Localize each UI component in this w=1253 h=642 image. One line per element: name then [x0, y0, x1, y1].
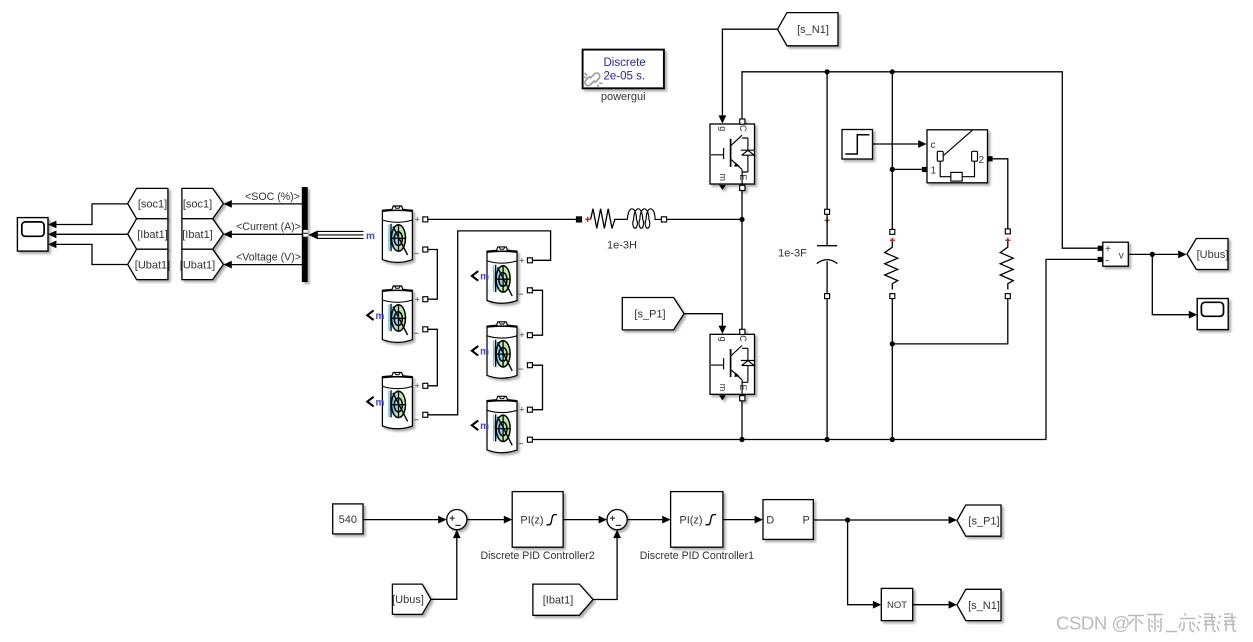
- sum block Add2: [607, 509, 627, 529]
- svg-text:+: +: [519, 330, 525, 341]
- watermark CSDN: [1056, 613, 1130, 634]
- wire [s_P1] to IGBT2 gate: [684, 314, 722, 326]
- svg-text:Discrete PID Controller2: Discrete PID Controller2: [480, 550, 594, 562]
- junction resistor bottoms: [890, 341, 895, 346]
- svg-text:1: 1: [931, 166, 937, 177]
- svg-text:m: m: [376, 397, 385, 408]
- wire Battery3 minus to Battery4 plus: [428, 231, 551, 415]
- junction top rail capacitor branch: [825, 69, 830, 74]
- resistor R2 branch: [1005, 229, 1010, 234]
- wire from [Ibat1] to Scope1 input 2: [56, 233, 128, 235]
- breaker block: [927, 130, 988, 183]
- svg-text:v: v: [1119, 250, 1124, 261]
- svg-text:Discrete PID Controller1: Discrete PID Controller1: [640, 550, 754, 562]
- svg-text:[soc1]: [soc1]: [138, 199, 167, 211]
- wire [Ibat1] to sum2: [593, 538, 617, 600]
- svg-text:NOT: NOT: [887, 600, 907, 611]
- goto tag [Ubat1]: [182, 249, 224, 279]
- IGBT U2: [710, 329, 755, 401]
- wire from [Ubat1] to Scope1 input 3: [56, 244, 128, 264]
- battery Battery6: [487, 396, 517, 452]
- svg-text:m: m: [376, 311, 385, 322]
- PID block Discrete PID Controller2: [512, 492, 563, 548]
- sum block Add1: [447, 509, 467, 529]
- IGBT U1: [710, 119, 755, 191]
- junction voltmeter output: [1150, 252, 1155, 257]
- wire IGBT1 emitter to IGBT2 collector: [741, 191, 743, 330]
- svg-text:[Ubus]: [Ubus]: [392, 594, 424, 606]
- svg-text:+: +: [519, 405, 525, 416]
- wire sum2 to PID1: [627, 519, 662, 521]
- wire resistor branch to breaker port 1: [892, 168, 922, 170]
- goto tag [soc1]: [182, 188, 224, 218]
- svg-text:[Ubus]: [Ubus]: [1197, 249, 1229, 261]
- goto tag [s_P1]: [957, 505, 1001, 536]
- capacitor C1 1e-3F branch: [826, 72, 828, 210]
- svg-text:[s_N1]: [s_N1]: [968, 600, 1000, 612]
- svg-text:[s_P1]: [s_P1]: [968, 515, 999, 527]
- subsystem block D P: [763, 500, 813, 540]
- svg-text:<Voltage (V)>: <Voltage (V)>: [236, 252, 301, 264]
- goto tag [Ibat1]: [182, 219, 224, 250]
- svg-text:powergui: powergui: [601, 91, 646, 103]
- wire breaker port 2 to resistor R2: [993, 159, 1008, 229]
- svg-text:[Ubat1]: [Ubat1]: [180, 259, 215, 271]
- wire 540 to sum1: [363, 519, 439, 521]
- powergui block: [583, 50, 664, 89]
- svg-text:Discrete: Discrete: [604, 57, 646, 69]
- PID block Discrete PID Controller1: [671, 492, 723, 548]
- svg-text:1e-3H: 1e-3H: [607, 239, 637, 251]
- battery Battery2: [382, 286, 412, 342]
- wire Battery2 minus to Battery3 plus: [428, 329, 438, 386]
- svg-text:+: +: [415, 381, 421, 392]
- svg-text:+: +: [1105, 244, 1111, 255]
- wire voltmeter output to goto [Ubus]: [1128, 253, 1179, 255]
- from tag [s_P1]: [622, 298, 684, 330]
- wire PID2 to sum2: [563, 519, 599, 521]
- wire bus selector to [soc1] with label SOC: [232, 203, 303, 205]
- svg-text:m: m: [480, 347, 489, 358]
- NOT block: [881, 588, 912, 620]
- wire Battery5 minus to Battery6 plus: [532, 365, 542, 410]
- wire from [soc1] to Scope1 input 1: [56, 204, 128, 225]
- junction on bottom bus below capacitor: [825, 437, 830, 442]
- wire Battery1 plus to series RL branch: [428, 218, 577, 220]
- svg-text:CSDN @: CSDN @: [1056, 613, 1130, 634]
- scope Scope1: [17, 218, 48, 252]
- svg-text:m: m: [480, 272, 489, 283]
- series RLC branch resistor and inductor 1e-3H: [576, 217, 581, 222]
- from tag [Ubus]: [392, 584, 431, 614]
- junction on bottom bus below resistor R1: [890, 437, 895, 442]
- wire sum1 to PID2: [467, 519, 504, 521]
- wire [Ubus] to sum1: [431, 538, 457, 599]
- scope Scope2: [1197, 299, 1228, 330]
- svg-text:+: +: [415, 294, 421, 305]
- svg-text:540: 540: [339, 514, 357, 526]
- from tag [soc1]: [128, 188, 168, 218]
- svg-text:1e-3F: 1e-3F: [778, 247, 807, 259]
- resistor R1 branch: [891, 72, 893, 230]
- svg-text:[soc1]: [soc1]: [183, 199, 212, 211]
- from tag [Ubat1]: [128, 249, 168, 279]
- svg-text:-: -: [1106, 255, 1110, 267]
- svg-text:<Current (A)>: <Current (A)>: [236, 221, 301, 233]
- wire IGBT1 collector to top rail and voltmeter plus: [742, 72, 1097, 248]
- wire step to breaker c: [873, 143, 919, 145]
- wire junction to NOT block: [848, 520, 873, 605]
- svg-text:c: c: [931, 140, 936, 151]
- wire Battery1 minus to Battery2 plus: [428, 250, 438, 300]
- step block: [842, 130, 873, 160]
- svg-text:2: 2: [979, 155, 985, 166]
- svg-text:[Ibat1]: [Ibat1]: [137, 229, 168, 241]
- battery Battery3: [382, 372, 412, 428]
- svg-text:P: P: [802, 514, 809, 526]
- from tag [s_N1]: [778, 13, 839, 46]
- svg-text:PI(z): PI(z): [679, 514, 702, 526]
- svg-text:m: m: [480, 421, 489, 432]
- junction on bottom bus below IGBT2: [739, 437, 744, 442]
- junction top rail resistor branch: [890, 69, 895, 74]
- junction midpoint rail: [739, 217, 744, 222]
- svg-text:+: +: [519, 255, 525, 266]
- svg-text:2e-05 s.: 2e-05 s.: [604, 71, 646, 83]
- wire bus selector to [Ibat1] with label Current: [232, 233, 303, 235]
- svg-text:[Ibat1]: [Ibat1]: [543, 594, 574, 606]
- wire [s_N1] to IGBT1 gate: [722, 29, 777, 116]
- wire P output to goto [s_P1]: [813, 519, 949, 521]
- voltmeter block: [1103, 242, 1129, 266]
- wire junction to Scope2: [1152, 254, 1189, 314]
- constant block 540: [333, 504, 363, 534]
- battery Battery1: [382, 206, 412, 262]
- wire bus selector to [Ubat1] with label Voltage: [232, 264, 303, 266]
- bus selector bar: [302, 187, 308, 282]
- svg-text:PI(z): PI(z): [520, 514, 543, 526]
- svg-text:[s_N1]: [s_N1]: [797, 24, 829, 36]
- svg-text:[Ubat1]: [Ubat1]: [135, 259, 170, 271]
- svg-text:+: +: [415, 215, 421, 226]
- from tag [Ibat1]: [533, 584, 593, 615]
- svg-text:m: m: [366, 231, 375, 242]
- svg-text:D: D: [766, 514, 774, 526]
- svg-text:[Ibat1]: [Ibat1]: [182, 229, 213, 241]
- battery Battery4: [487, 247, 517, 303]
- goto tag [s_N1]: [957, 589, 1001, 620]
- bottom bus wire Battery6 minus to right riser and voltmeter minus: [532, 259, 1097, 439]
- wire IGBT2 emitter to bottom bus: [741, 401, 743, 440]
- wire PID1 to subsystem D: [723, 519, 755, 521]
- bus signal wire battery1 m to bus selector: [308, 231, 318, 240]
- wire resistor R2 bottom to junction: [892, 299, 1008, 344]
- goto tag [Ubus]: [1187, 239, 1228, 270]
- wire NOT to goto [s_N1]: [913, 604, 949, 606]
- junction P output: [845, 517, 850, 522]
- from tag [Ibat1]: [128, 219, 168, 250]
- wire Battery4 minus to Battery5 plus: [532, 290, 542, 335]
- wire RL branch to midpoint rail: [667, 218, 742, 220]
- svg-text:[s_P1]: [s_P1]: [634, 309, 665, 321]
- battery Battery5: [487, 322, 517, 378]
- svg-text:<SOC (%)>: <SOC (%)>: [245, 191, 300, 203]
